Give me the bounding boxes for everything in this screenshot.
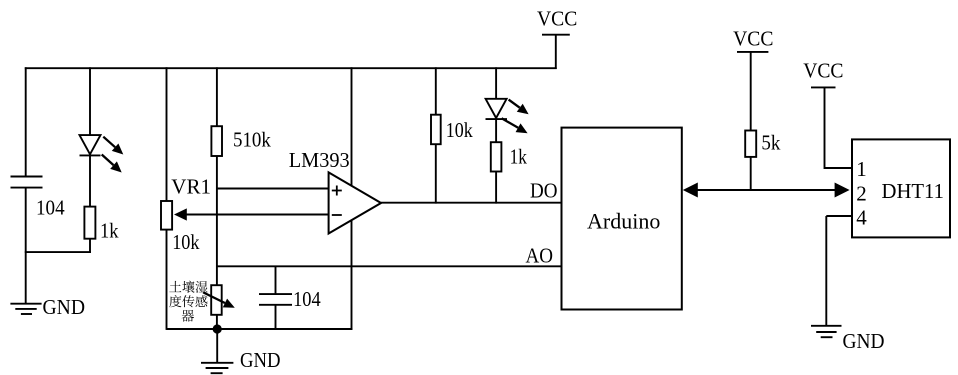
- svg-text:5k: 5k: [761, 131, 780, 155]
- wire VCC to DHT11 pin 1: [825, 167, 853, 169]
- svg-text:VCC: VCC: [733, 27, 773, 51]
- wire 10k to DO: [435, 144, 437, 203]
- svg-text:DHT11: DHT11: [882, 179, 945, 203]
- svg-text:AO: AO: [526, 243, 554, 267]
- svg-text:1k: 1k: [100, 219, 119, 243]
- wire VR1 branch from bus: [166, 67, 168, 201]
- wire op-amp output DO: [381, 202, 562, 204]
- wire AO to capacitor: [275, 266, 277, 294]
- wire VR1 wiper to op-amp - input (arrow at pot): [174, 208, 187, 220]
- wire left branch down: [25, 67, 27, 177]
- node junction dot: [213, 324, 222, 333]
- LED D2 light arrows: [509, 100, 520, 108]
- wire AO: [216, 265, 562, 267]
- wire junction y252: [25, 251, 91, 253]
- svg-text:4: 4: [856, 206, 867, 230]
- wire LED2 branch from bus: [495, 67, 497, 99]
- wire LED branch from bus: [89, 67, 91, 135]
- soil sensor label 土壤湿度传感器: [169, 281, 207, 322]
- wire to op-amp + input: [216, 188, 329, 190]
- wire resistor to junction: [89, 239, 91, 253]
- svg-text:VCC: VCC: [537, 6, 577, 30]
- capacitor 104 (left): [11, 176, 43, 178]
- wire 510k down through node to sensor: [216, 156, 218, 329]
- svg-text:VCC: VCC: [803, 58, 843, 82]
- Arduino module box: [562, 128, 682, 310]
- resistor 10k (pull-up): [431, 115, 441, 145]
- svg-text:GND: GND: [43, 295, 86, 319]
- capacitor 104 (filter): [259, 293, 292, 295]
- wire 5k to data line: [750, 157, 752, 191]
- svg-text:2: 2: [856, 181, 867, 205]
- svg-text:1: 1: [856, 157, 867, 181]
- svg-text:DO: DO: [530, 178, 558, 202]
- wire capacitor to bottom wire: [275, 305, 277, 330]
- resistor 1k (left): [84, 207, 95, 239]
- wire resistor to DO: [495, 172, 497, 204]
- wire 10k branch from bus: [435, 67, 437, 115]
- LED D2: [486, 99, 507, 118]
- resistor 5k: [745, 131, 756, 157]
- LED D1: [80, 135, 101, 154]
- wire capacitor to ground: [25, 188, 27, 305]
- svg-text:GND: GND: [843, 329, 885, 353]
- svg-text:1k: 1k: [510, 144, 528, 168]
- wire junction to ground: [216, 329, 218, 364]
- svg-text:510k: 510k: [233, 128, 271, 152]
- wire LM393 vertical (behind op-amp): [351, 67, 353, 330]
- LED D1 light arrows: [103, 137, 115, 148]
- wire bottom: [167, 328, 353, 330]
- svg-text:104: 104: [36, 196, 65, 220]
- wire 510k branch from bus: [216, 67, 218, 126]
- DHT11 module box: [852, 139, 950, 237]
- ground GND (left): [10, 303, 41, 305]
- wire DHT11 pin 4 to ground: [826, 215, 852, 217]
- svg-text:Arduino: Arduino: [587, 208, 660, 233]
- ground GND (middle): [201, 362, 233, 364]
- potentiometer VR1 10k body: [161, 201, 172, 230]
- svg-text:VR1: VR1: [171, 175, 211, 199]
- ground GND (right): [811, 325, 842, 327]
- op-amp U1 LM393: [329, 172, 381, 233]
- resistor 510k: [211, 126, 222, 156]
- svg-text:104: 104: [293, 287, 321, 311]
- wire LED to resistor: [89, 154, 91, 207]
- svg-text:10k: 10k: [446, 118, 473, 142]
- wire LED2 to resistor: [495, 118, 497, 143]
- svg-text:10k: 10k: [172, 230, 200, 254]
- wire Arduino-DHT11 data (double arrow): [683, 183, 698, 198]
- svg-text:GND: GND: [240, 348, 281, 372]
- wire top VCC bus: [25, 67, 557, 69]
- soil moisture sensor element: [211, 285, 222, 315]
- svg-text:LM393: LM393: [289, 148, 350, 172]
- wire VR1 down to bottom wire: [166, 230, 168, 330]
- resistor 1k (LED2): [491, 142, 502, 171]
